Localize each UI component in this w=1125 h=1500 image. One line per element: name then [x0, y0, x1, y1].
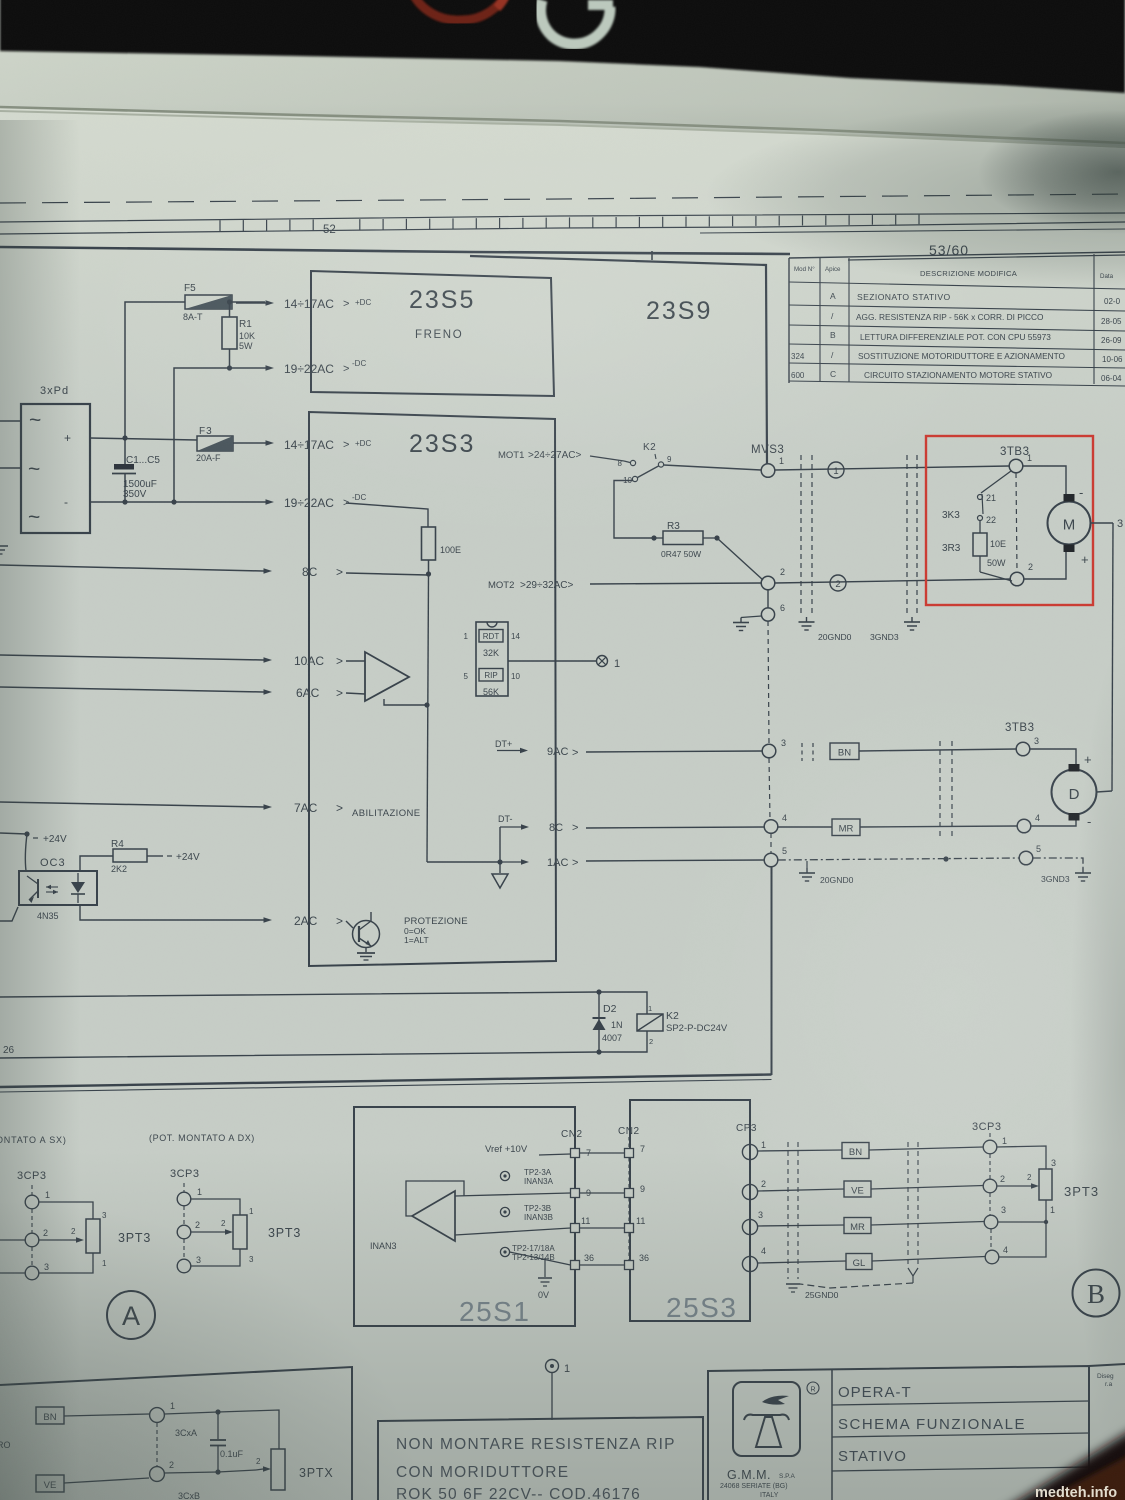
potentiometer 3PT3 (right) [191, 1199, 301, 1266]
title block frame [708, 1364, 1125, 1500]
terminal 3TB3-2 [1010, 562, 1033, 586]
connector 3Cx pin1 [150, 1401, 175, 1422]
test point TP2-17 [500, 1244, 555, 1262]
capacitor C1...C5 [112, 435, 160, 504]
label box BN2 [842, 1143, 869, 1159]
revision table [789, 252, 1125, 386]
optocoupler OC3 [19, 834, 97, 921]
label box GL [846, 1254, 872, 1270]
black band at top [0, 0, 1125, 93]
wire AC input 2 [0, 467, 21, 469]
dashed node6 to node3 [768, 621, 769, 744]
Diseg cell [1097, 1373, 1114, 1388]
section border bottom [0, 1075, 772, 1093]
wire + output [90, 438, 197, 440]
wire BN to 3TB3-3 [859, 749, 1016, 751]
wire MR to 3TB3-4 [778, 826, 1017, 827]
wire MOT1 24÷27AC [498, 450, 624, 461]
test point TP2-3B [500, 1204, 553, 1222]
wire 7AC ABILITAZIONE [0, 801, 421, 819]
label box VE [844, 1181, 871, 1197]
wire motor D to right bus [1097, 791, 1113, 792]
wire opamp feedback to bus [384, 699, 430, 708]
cable screen pair D [940, 741, 952, 836]
indicator ⊕1 bottom [546, 1360, 571, 1421]
wire upper rail to K2 coil [0, 989, 647, 1014]
note box NON MONTARE [378, 1417, 703, 1500]
wire pin1 to 3PTX [164, 1409, 279, 1449]
GMM company text [720, 1468, 795, 1499]
block 25S1 [354, 1107, 575, 1327]
motor D [1030, 749, 1097, 829]
wire row1 CP3-BN-3CP3 [758, 1150, 842, 1151]
box 3PTX section [0, 1367, 352, 1500]
node 5 [764, 846, 787, 867]
relay coil K2 [637, 1004, 728, 1046]
resistor 100E [422, 527, 462, 560]
block 23S3 [309, 412, 556, 966]
ruler tick cells [220, 215, 919, 236]
wire 2AC from OC3 [0, 905, 343, 928]
fuse F3 [196, 426, 233, 463]
capacitor 0.1uF [210, 1412, 244, 1475]
wire 8C into box [0, 560, 431, 579]
cable number 1 [828, 462, 844, 478]
node 4 [764, 813, 787, 833]
diode D2 1N4007 [593, 992, 623, 1052]
node 2 [761, 567, 785, 590]
wire MOT2 29÷32AC [488, 580, 761, 591]
wire R3 to node 2 [717, 538, 763, 580]
right bus vertical [1112, 523, 1113, 791]
wire 36 and 0V ground [510, 1252, 571, 1300]
resistor 3R3 [942, 521, 1012, 582]
wire node1 to 3TB3-1 [775, 466, 1009, 470]
dark photo corner bottom right [1000, 1428, 1125, 1500]
block 23S5 FRENO [311, 271, 554, 396]
shelf rail band [0, 50, 1125, 148]
connector CN2 (25S3 side) [618, 1126, 649, 1270]
fuse F5 [183, 283, 232, 322]
op-amp INAN3 [370, 1181, 571, 1251]
svg-text:medteh.info: medteh.info [1035, 1485, 1117, 1500]
wire row3 CP3-MR-3CP3 [758, 1225, 844, 1226]
resistor R3 [651, 521, 719, 559]
arrow 14÷17AC +DC (23S5) [236, 297, 371, 311]
arrow 19÷22AC -DC (23S5) [174, 359, 366, 502]
wires CN2-CN2 [580, 1153, 625, 1265]
registered mark [807, 1382, 819, 1394]
rectifier bridge 3xPd [21, 404, 90, 533]
title rows [832, 1384, 1089, 1471]
wire 6AC [0, 686, 365, 700]
wire row2 CP3-VE-3CP3 [758, 1189, 844, 1191]
ground 20GND0 [799, 617, 852, 642]
transistor PROTEZIONE [346, 912, 468, 960]
wire K2-10 to R3 [614, 481, 654, 539]
sheet number 53/60 [848, 242, 1125, 260]
terminal 3TB3-4 [1017, 813, 1040, 833]
node 1 [761, 456, 784, 477]
label box BN3 [36, 1407, 149, 1424]
node 3 [762, 738, 786, 758]
IC RDT/RIP [464, 622, 521, 697]
test point TP2-3A [500, 1168, 553, 1186]
switch K2 [618, 442, 672, 485]
lighting overlays [60, 90, 1020, 550]
dashed link t1-t2 [1016, 473, 1017, 572]
node 6 [761, 590, 785, 621]
connector 3CP3 (left group) [0, 1170, 50, 1280]
vertical bus wire [427, 574, 429, 862]
wire F5 feed vertical [125, 302, 185, 438]
wires into CN2 from opamp [0, 0, 1, 1]
G letter glyph top [541, 0, 613, 44]
connector CP3 [736, 1123, 766, 1272]
GMM logo [733, 1382, 800, 1456]
wire F5 to arrow 14-17AC [227, 299, 265, 304]
wire - output 19÷22AC [90, 493, 366, 510]
extra sheet line right [700, 229, 1125, 233]
arrow 14÷17AC +DC (23S3) [233, 438, 371, 452]
dashed node3-node4-node5 [769, 758, 771, 853]
potentiometer 3PT3 bottom right [997, 1146, 1099, 1257]
switch 3K3 [942, 471, 1011, 525]
ground 3GND3 [870, 617, 920, 642]
top dashed sheet line [0, 194, 1125, 203]
label box BN [830, 743, 859, 760]
ruler strip top line [0, 213, 1125, 222]
terminal 3TB3-1 [1009, 453, 1032, 473]
block 25S3 [630, 1100, 750, 1323]
heavy frame line [0, 247, 790, 260]
dash to ground 3GND3 lower [1033, 858, 1091, 884]
op-amp buffer [365, 652, 409, 701]
solid bus node5 down [771, 867, 773, 1075]
wire motor M to right bus [1091, 518, 1124, 530]
block 23S9 outline [470, 256, 767, 464]
potentiometer 3PT3 (left) [39, 1202, 151, 1273]
signal DT+ 9AC [495, 739, 568, 758]
label box VE2 [36, 1475, 149, 1492]
indicator node ⊗1 [597, 656, 621, 671]
wire 1AC to node 5 [572, 857, 764, 869]
rail groove shadow [0, 107, 1125, 143]
wire IC to lamp node 1 [508, 660, 597, 662]
wire AC input 1 [0, 420, 21, 422]
ruler strip bottom line [0, 222, 1125, 234]
ground stub at left edge [0, 546, 8, 554]
connector 3CP3 bottom right [972, 1121, 1008, 1264]
wire 10AC [0, 654, 365, 668]
cable screen pair E1 [788, 1142, 798, 1279]
red ring logo top [412, 0, 508, 20]
cable screen pair B [907, 455, 917, 614]
terminal 3TB3-5 [1019, 844, 1041, 865]
connector 3CP3 (right group) [170, 1168, 202, 1273]
wire row4 CP3-GL-3CP3 [758, 1261, 846, 1263]
ground 25GND0 [786, 1284, 839, 1300]
connector CN2 (25S1 side) [561, 1129, 594, 1270]
label box MR2 [844, 1218, 871, 1234]
cable screen pair A [801, 455, 812, 614]
Vref +10V [485, 1144, 571, 1155]
signal DT- 8C 1AC [498, 814, 563, 834]
cable number 2 [830, 575, 846, 591]
wire to 100E [346, 503, 428, 527]
wire 8C to node 4 [572, 822, 764, 834]
section marker A [107, 1291, 155, 1339]
section marker B [1073, 1270, 1120, 1317]
wire 9AC to node 3 [572, 747, 762, 759]
ground at node 6 [733, 616, 762, 631]
resistor R4 [80, 839, 200, 874]
resistor R1 [222, 302, 255, 368]
wire node2 to 3TB3-2 [775, 579, 1011, 583]
red annotation box [926, 436, 1093, 605]
label box MR [832, 819, 860, 836]
screen drain dash-dot node5 to t5 [778, 856, 1019, 861]
terminal 3TB3-3 [1016, 736, 1039, 756]
connector 3Cx pin2 [150, 1423, 174, 1481]
cable screen pair C [802, 743, 813, 761]
wire K2-9 to MVS3 node 1 [664, 465, 761, 470]
potentiometer 3PTX [271, 1449, 333, 1490]
wire pin2 to 3PTX wiper [164, 1457, 271, 1473]
wire +24V left [0, 831, 67, 845]
wire 26 rail [0, 1031, 647, 1058]
cable screen pair E2 with drain [800, 1142, 918, 1288]
ground 20GND0 lower [799, 861, 854, 885]
wire 1AC with ground [427, 827, 568, 888]
motor M [1023, 466, 1091, 579]
